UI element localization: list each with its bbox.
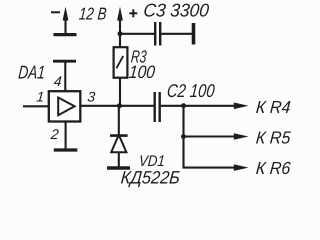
+12V arrow <box>117 7 123 34</box>
svg-text:К R5: К R5 <box>255 127 291 147</box>
pin 2 wire <box>65 121 67 149</box>
arrow -12V supply <box>63 7 69 34</box>
capacitor C3 <box>155 22 160 46</box>
capacitor C2 <box>155 92 160 122</box>
wire node to C2 <box>120 105 154 107</box>
wire node to VD1 <box>118 106 120 135</box>
wire to arrow K R5 <box>184 133 249 140</box>
rail bar under -12V arrow <box>54 33 77 36</box>
svg-text:2: 2 <box>49 126 59 142</box>
svg-text:1: 1 <box>36 89 45 105</box>
wire to arrow K R4 <box>184 103 249 110</box>
node B out2 <box>181 134 186 139</box>
minus sign of -12V supply <box>51 11 60 13</box>
svg-text:C2 100: C2 100 <box>166 80 216 101</box>
ground bar below VD1 <box>107 166 130 169</box>
C3 terminal bar <box>192 23 196 45</box>
plus sign <box>129 9 137 17</box>
svg-text:DA1: DA1 <box>17 61 46 82</box>
wire node to C3 <box>120 33 154 35</box>
wire down to out2 <box>182 106 184 137</box>
wire VD1 to ground <box>118 152 120 166</box>
svg-text:К R4: К R4 <box>255 97 291 117</box>
pin 3 output wire <box>80 105 119 107</box>
wire pin4 <box>64 62 66 92</box>
svg-text:C3 3300: C3 3300 <box>143 0 211 20</box>
wire C3 to terminal <box>161 33 192 35</box>
ground bar below pin 2 <box>54 148 78 151</box>
wire down to out3 <box>182 137 184 168</box>
svg-text:КД522Б: КД522Б <box>120 168 181 188</box>
svg-text:100: 100 <box>128 62 156 82</box>
svg-text:К R6: К R6 <box>255 158 291 178</box>
resistor R3 <box>114 47 128 77</box>
diode VD1 cathode bar <box>110 134 128 137</box>
op-amp triangle <box>58 98 74 116</box>
diode VD1 triangle <box>111 135 126 152</box>
node A out1 <box>181 103 186 108</box>
wire R3 to node <box>119 78 121 106</box>
rail tap bar above DA1 pin 4 <box>53 60 76 63</box>
node: output junction <box>117 103 122 108</box>
svg-text:3: 3 <box>87 89 96 105</box>
node junction +12V/R3/C3 <box>118 31 123 36</box>
svg-text:4: 4 <box>53 73 62 89</box>
wire +node to R3 <box>119 34 121 48</box>
pin 1 wire <box>23 105 49 107</box>
R3 power-rating stroke <box>116 56 123 68</box>
op-amp U DA1 box <box>49 91 81 121</box>
svg-text:12 В: 12 В <box>78 4 107 24</box>
wire to arrow K R6 <box>183 164 249 171</box>
wire C2 to out node <box>161 105 184 107</box>
